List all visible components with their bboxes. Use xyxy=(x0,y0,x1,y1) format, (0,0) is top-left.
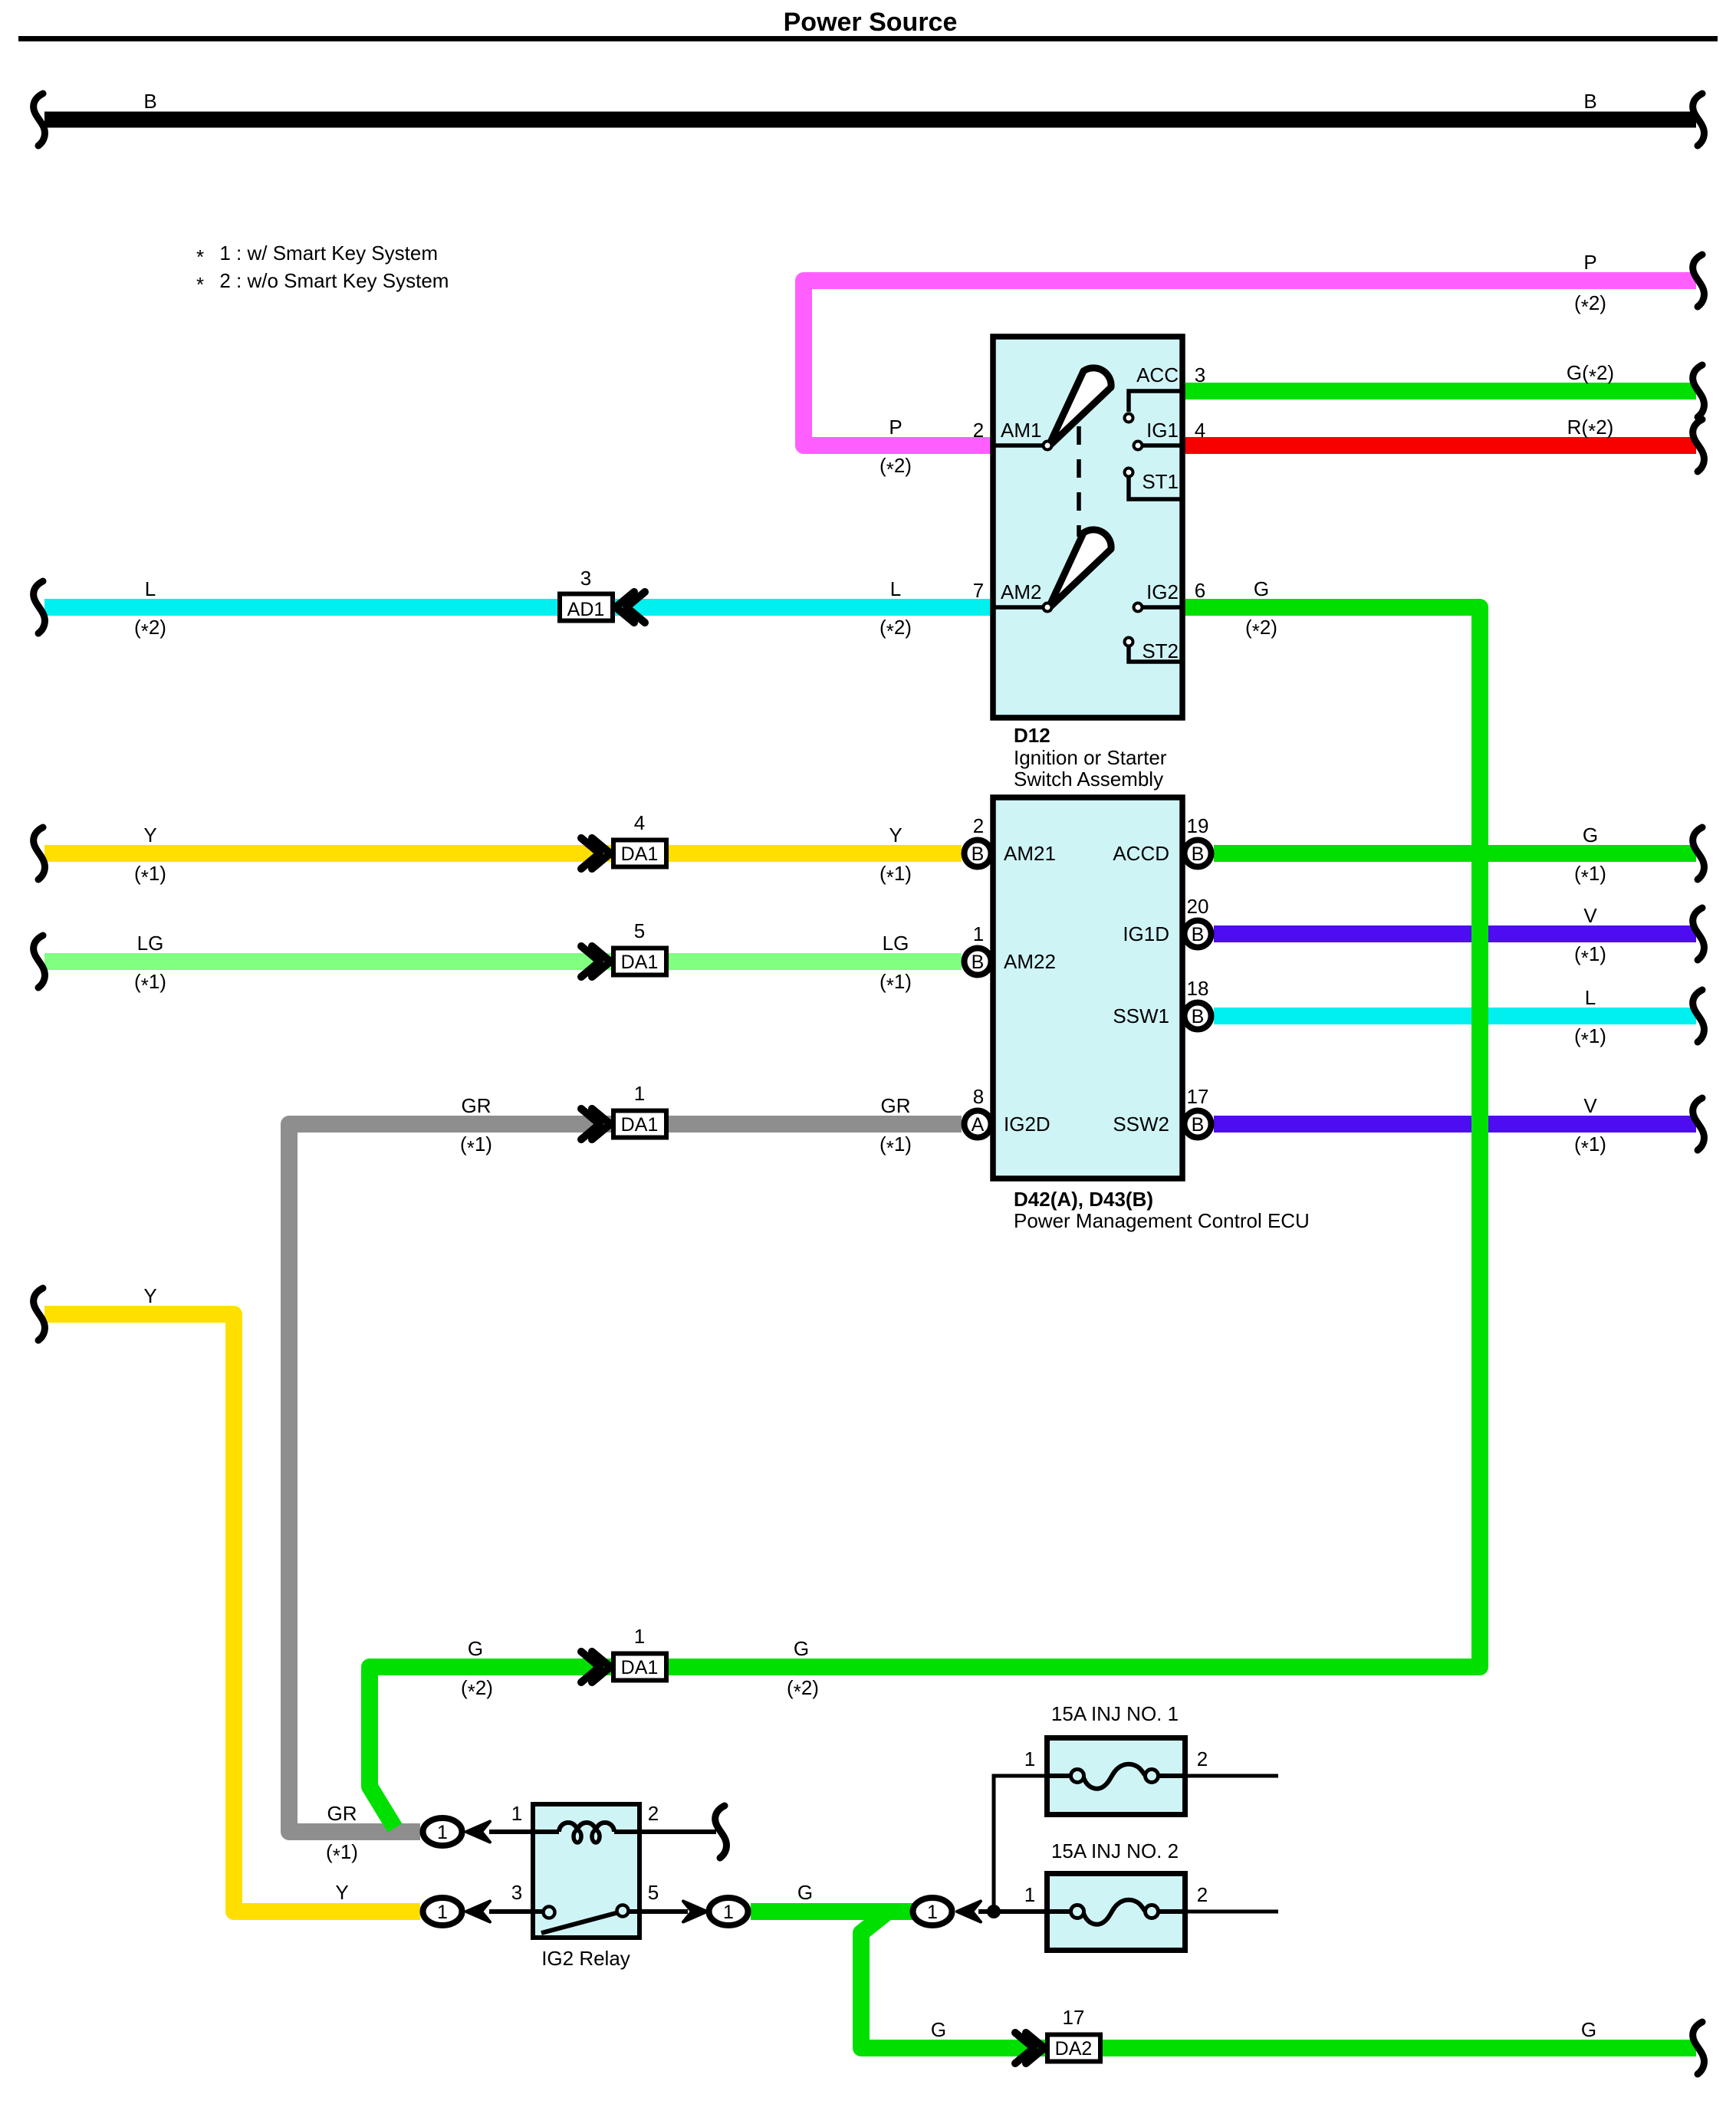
break L(*1) right xyxy=(1693,990,1705,1042)
svg-text:(*1): (*1) xyxy=(880,1133,912,1159)
arrow into relay pin 1 xyxy=(466,1822,490,1843)
svg-text:(*1): (*1) xyxy=(134,862,166,889)
pin AM22 circle B xyxy=(965,948,991,975)
svg-text:8: 8 xyxy=(973,1085,984,1108)
svg-text:17: 17 xyxy=(1063,2006,1085,2029)
connector DA1 box (Y row) xyxy=(613,840,666,867)
wire G(*2) from ACC xyxy=(1183,383,1696,399)
svg-text:B: B xyxy=(1192,1006,1205,1027)
svg-text:2: 2 xyxy=(973,814,984,837)
svg-text:3: 3 xyxy=(580,567,591,590)
relay coil xyxy=(559,1823,614,1832)
svg-text:ST1: ST1 xyxy=(1142,470,1179,493)
wire G(*1) from ACCD xyxy=(1214,845,1696,862)
relay switch contact left xyxy=(544,1907,555,1918)
svg-text:18: 18 xyxy=(1187,977,1209,1000)
svg-text:DA1: DA1 xyxy=(621,952,659,973)
IG2 relay box xyxy=(533,1804,639,1938)
break LG left xyxy=(34,935,45,988)
svg-text:G: G xyxy=(797,1881,813,1904)
connector AD1 chevrons xyxy=(616,592,634,623)
svg-text:(*2): (*2) xyxy=(461,1676,493,1703)
pin IG2D circle A xyxy=(965,1111,991,1138)
D12 key lever 2 pivot xyxy=(1044,603,1052,612)
fuse NO.2 element xyxy=(1071,1905,1084,1918)
svg-text:G: G xyxy=(1583,824,1598,847)
D12 ST1 internal stub xyxy=(1129,477,1181,499)
svg-text:DA2: DA2 xyxy=(1055,2038,1093,2060)
pin AM21 circle B xyxy=(965,840,991,867)
svg-text:G: G xyxy=(468,1637,483,1660)
pin SSW2 circle B xyxy=(1185,1111,1212,1138)
relay switch contact right xyxy=(617,1905,629,1917)
svg-text:B: B xyxy=(972,952,985,973)
break Y bottom left xyxy=(34,1288,45,1340)
svg-text:P: P xyxy=(889,416,902,439)
svg-text:1: 1 xyxy=(973,922,984,945)
arrow into relay pin 3 xyxy=(466,1902,490,1922)
svg-text:1: 1 xyxy=(1024,1747,1035,1770)
svg-text:IG1D: IG1D xyxy=(1123,922,1169,945)
connector DA2 box (bottom G) xyxy=(1047,2035,1100,2062)
svg-text:G: G xyxy=(931,2018,946,2041)
svg-text:Power Management Control ECU: Power Management Control ECU xyxy=(1014,1209,1310,1232)
svg-text:Y: Y xyxy=(143,824,156,847)
D12 ACC internal stub xyxy=(1129,391,1181,412)
break Y left xyxy=(34,827,45,879)
svg-text:B: B xyxy=(1192,843,1205,865)
svg-text:G: G xyxy=(1581,2018,1596,2041)
svg-text:(*1): (*1) xyxy=(1574,1133,1606,1159)
connector DA1 chevrons (Y row) xyxy=(581,838,600,869)
svg-text:3: 3 xyxy=(511,1881,522,1904)
svg-text:(*2): (*2) xyxy=(880,616,912,643)
wire P pink from AM1 xyxy=(804,281,1696,445)
svg-text:* 2 : w/o Smart Key System: * 2 : w/o Smart Key System xyxy=(196,269,449,296)
break G(*1) right xyxy=(1693,827,1705,879)
break V(*1) right xyxy=(1693,908,1705,960)
pin IG1D circle B xyxy=(1185,921,1212,948)
D12 gang dashed line xyxy=(1077,426,1081,537)
fuse NO.1 internal line right xyxy=(1158,1774,1183,1778)
svg-text:G: G xyxy=(1254,577,1269,600)
connector DA1 box (LG row) xyxy=(613,948,666,975)
D12 ST2 contact xyxy=(1125,638,1133,646)
oval connector 1 (Y row) xyxy=(423,1898,462,1925)
svg-text:L: L xyxy=(145,577,156,600)
svg-text:6: 6 xyxy=(1195,579,1205,602)
svg-text:DA1: DA1 xyxy=(621,1114,659,1136)
svg-text:4: 4 xyxy=(634,811,645,834)
svg-text:5: 5 xyxy=(648,1881,659,1904)
D12 key lever 2 xyxy=(1048,530,1111,609)
svg-text:AD1: AD1 xyxy=(567,599,605,620)
line from arrow to fuse NO.2 xyxy=(978,1909,1047,1914)
D12 ST2 internal stub xyxy=(1129,646,1181,662)
break relay coil pin2 xyxy=(715,1806,727,1858)
fuse NO.1 internal line left xyxy=(1047,1774,1071,1778)
svg-text:1: 1 xyxy=(1024,1883,1035,1906)
svg-text:A: A xyxy=(972,1114,985,1136)
svg-text:AM2: AM2 xyxy=(1001,580,1041,603)
break G bottom right xyxy=(1693,2022,1705,2074)
svg-text:Y: Y xyxy=(335,1881,348,1904)
svg-text:ACCD: ACCD xyxy=(1113,842,1169,865)
svg-text:(*1): (*1) xyxy=(1574,862,1606,889)
relay coil lead line right to break xyxy=(614,1829,716,1834)
svg-text:IG2D: IG2D xyxy=(1004,1113,1050,1136)
D12 ACC contact xyxy=(1125,414,1133,422)
svg-text:7: 7 xyxy=(973,579,984,602)
svg-text:DA1: DA1 xyxy=(621,1657,659,1678)
wire LG(*1) to AM22 xyxy=(44,953,962,970)
break R(*2) right xyxy=(1693,419,1705,472)
wire G from IG2 relay pin 5 to fuses xyxy=(751,1903,912,1920)
svg-text:(*1): (*1) xyxy=(134,970,166,997)
svg-text:1: 1 xyxy=(927,1902,938,1923)
svg-text:SSW2: SSW2 xyxy=(1113,1113,1169,1136)
D12 ignition switch box xyxy=(993,337,1182,718)
relay switch lead line left xyxy=(489,1909,544,1914)
svg-text:AM21: AM21 xyxy=(1004,842,1056,865)
svg-text:P: P xyxy=(1583,251,1596,274)
D12 key lever 1 xyxy=(1048,368,1111,447)
svg-text:IG1: IG1 xyxy=(1146,419,1179,442)
svg-text:(*1): (*1) xyxy=(1574,942,1606,969)
svg-text:B: B xyxy=(972,843,985,865)
svg-text:Y: Y xyxy=(143,1284,156,1307)
svg-text:2: 2 xyxy=(648,1802,659,1825)
fuse NO.2 output line xyxy=(1183,1910,1278,1914)
svg-text:DA1: DA1 xyxy=(621,843,659,865)
fuse NO.2 internal line left xyxy=(1047,1909,1071,1914)
svg-text:SSW1: SSW1 xyxy=(1113,1004,1169,1027)
svg-text:B: B xyxy=(1583,90,1596,113)
svg-text:L: L xyxy=(890,577,901,600)
svg-text:5: 5 xyxy=(634,919,645,942)
D12 IG2 internal stub xyxy=(1143,605,1181,610)
break B left xyxy=(34,94,45,146)
svg-text:(*2): (*2) xyxy=(1574,291,1606,318)
svg-text:(*1): (*1) xyxy=(1574,1024,1606,1051)
D12 AM1 internal stub xyxy=(992,443,1044,448)
title rule xyxy=(18,36,1718,41)
oval connector 1 (relay output) xyxy=(709,1898,748,1925)
svg-text:(*1): (*1) xyxy=(880,970,912,997)
svg-text:L: L xyxy=(1585,986,1596,1009)
svg-text:V: V xyxy=(1583,904,1597,927)
svg-text:Y: Y xyxy=(889,824,902,847)
riser line to fuse NO.1 xyxy=(994,1776,1047,1912)
svg-text:1: 1 xyxy=(723,1902,734,1923)
D12 IG1 internal stub xyxy=(1143,443,1181,448)
pin ACCD circle B xyxy=(1185,840,1212,867)
svg-text:* 1 : w/ Smart Key System: * 1 : w/ Smart Key System xyxy=(196,242,438,268)
fuse NO.2 internal line right xyxy=(1158,1909,1183,1914)
svg-text:1: 1 xyxy=(634,1082,645,1105)
wire L(*1) from SSW1 xyxy=(1214,1008,1696,1024)
svg-text:ST2: ST2 xyxy=(1142,639,1179,662)
svg-text:15A INJ NO. 2: 15A INJ NO. 2 xyxy=(1051,1839,1179,1862)
svg-text:R(*2): R(*2) xyxy=(1567,416,1614,442)
junction dot xyxy=(987,1905,1001,1918)
svg-text:IG2: IG2 xyxy=(1146,580,1179,603)
connector DA1 chevrons (GR row) xyxy=(581,1109,600,1139)
svg-text:1: 1 xyxy=(634,1625,645,1648)
svg-text:D42(A), D43(B): D42(A), D43(B) xyxy=(1014,1188,1153,1211)
arrow into fuse oval xyxy=(957,1902,981,1922)
fuse 15A INJ NO.2 box xyxy=(1047,1874,1185,1951)
svg-text:2: 2 xyxy=(1197,1747,1208,1770)
svg-text:(*1): (*1) xyxy=(460,1133,492,1159)
svg-text:3: 3 xyxy=(1195,363,1205,386)
svg-text:LG: LG xyxy=(883,932,909,955)
wire G branch down to DA2 row xyxy=(861,1912,1696,2048)
fuse 15A INJ NO.1 box xyxy=(1047,1738,1185,1815)
connector DA1 chevrons (G line) xyxy=(581,1652,600,1682)
break P right xyxy=(1693,255,1705,307)
svg-text:1: 1 xyxy=(437,1902,448,1923)
svg-text:(*1): (*1) xyxy=(326,1840,358,1867)
break B right xyxy=(1693,94,1705,146)
svg-text:15A INJ NO. 1: 15A INJ NO. 1 xyxy=(1051,1702,1179,1725)
connector DA1 box (G line) xyxy=(613,1654,666,1681)
fuse NO.1 output line xyxy=(1183,1774,1278,1778)
break V(*1) SSW2 right xyxy=(1693,1098,1705,1150)
wire GR(*1) from IG2D to IG2 relay xyxy=(289,1124,962,1832)
svg-text:IG2 Relay: IG2 Relay xyxy=(541,1947,630,1970)
svg-text:(*2): (*2) xyxy=(880,454,912,481)
svg-text:17: 17 xyxy=(1187,1085,1209,1108)
svg-text:19: 19 xyxy=(1187,814,1209,837)
connector DA2 chevrons xyxy=(1015,2033,1034,2063)
svg-text:D12: D12 xyxy=(1014,724,1050,747)
svg-text:2: 2 xyxy=(973,419,984,442)
wire V(*1) from SSW2 xyxy=(1214,1116,1696,1133)
svg-text:B: B xyxy=(1192,1114,1205,1136)
svg-text:(*1): (*1) xyxy=(880,862,912,889)
svg-text:2: 2 xyxy=(1197,1883,1208,1906)
svg-text:(*2): (*2) xyxy=(1245,616,1277,643)
wire Y to IG2 relay pin 3 xyxy=(44,1314,420,1912)
connector DA1 box (GR row) xyxy=(613,1111,666,1138)
fuse NO.1 element xyxy=(1071,1770,1084,1783)
svg-text:1: 1 xyxy=(511,1802,522,1825)
D12 key lever 1 pivot xyxy=(1044,442,1052,450)
arrow out of relay pin 5 xyxy=(683,1902,707,1922)
svg-text:(*2): (*2) xyxy=(134,616,166,643)
wire V(*1) from IG1D xyxy=(1214,925,1696,942)
svg-text:G: G xyxy=(794,1637,809,1660)
svg-text:Ignition or Starter: Ignition or Starter xyxy=(1014,746,1167,769)
svg-text:Power Source: Power Source xyxy=(784,8,958,37)
wire B (black bus) xyxy=(44,112,1696,128)
oval connector 1 (GR row) xyxy=(423,1818,462,1846)
svg-text:B: B xyxy=(1192,924,1205,945)
D12 IG2 contact xyxy=(1134,603,1143,612)
svg-text:(*2): (*2) xyxy=(787,1676,819,1703)
relay switch lead line right xyxy=(628,1909,688,1914)
break L(*2) left xyxy=(34,581,45,633)
D12 IG1 contact xyxy=(1134,442,1143,450)
ECU box D42/D43 xyxy=(993,797,1182,1179)
svg-text:AM22: AM22 xyxy=(1004,950,1056,973)
svg-text:4: 4 xyxy=(1195,419,1205,442)
break G(*2) right xyxy=(1693,365,1705,417)
svg-text:GR: GR xyxy=(462,1094,492,1117)
D12 ST1 contact xyxy=(1125,468,1133,477)
connector DA1 chevrons (LG row) xyxy=(581,946,600,977)
relay switch blade xyxy=(541,1912,619,1933)
svg-text:GR: GR xyxy=(327,1802,357,1825)
wire L(*2) to AM2 xyxy=(44,599,992,616)
svg-text:B: B xyxy=(143,90,156,113)
oval connector 1 (fuse feed) xyxy=(913,1898,952,1925)
svg-text:V: V xyxy=(1583,1094,1597,1117)
svg-text:1: 1 xyxy=(437,1822,448,1843)
svg-text:20: 20 xyxy=(1187,895,1209,918)
svg-text:GR: GR xyxy=(881,1094,911,1117)
wire G(*2) main from IG2 down and to IG2 relay xyxy=(370,607,1480,1828)
wire Y(*1) to AM21 xyxy=(44,845,962,862)
svg-text:ACC: ACC xyxy=(1136,363,1179,386)
svg-text:LG: LG xyxy=(137,932,164,955)
svg-text:G(*2): G(*2) xyxy=(1567,361,1614,388)
pin SSW1 circle B xyxy=(1185,1003,1212,1030)
svg-text:Switch Assembly: Switch Assembly xyxy=(1014,768,1163,791)
wire R(*2) from IG1 xyxy=(1183,437,1696,454)
svg-text:AM1: AM1 xyxy=(1001,419,1041,442)
D12 AM2 internal stub xyxy=(992,605,1044,610)
relay coil lead line left xyxy=(489,1829,559,1834)
connector AD1 box (cyan row) xyxy=(560,594,613,621)
